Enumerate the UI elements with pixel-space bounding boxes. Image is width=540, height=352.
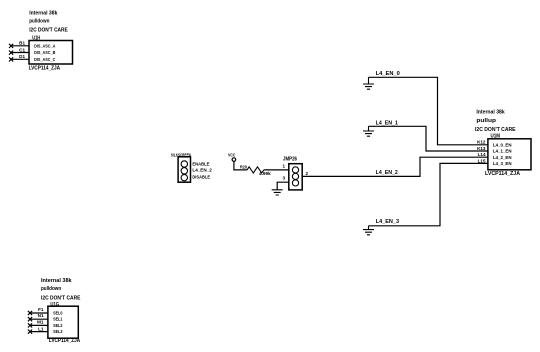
wire resistor to JMP26 pin1 [264,169,289,171]
wire pin L1 [30,331,48,333]
resistor R20 zigzag [247,167,264,173]
svg-text:SEL0: SEL0 [53,311,63,316]
ground for L4_EN_0 [363,77,374,89]
svg-text:L4_2_EN: L4_2_EN [493,155,512,160]
svg-text:I2C DON'T CARE: I2C DON'T CARE [41,296,81,302]
svg-text:SEL1: SEL1 [53,317,63,322]
svg-text:Internal 38k: Internal 38k [29,10,58,16]
wire pin C1 [11,52,29,54]
svg-text:I2C DON'T CARE: I2C DON'T CARE [29,28,68,34]
wire L4_EN_0 [369,77,488,145]
wire pin F1 [30,312,48,314]
ground for L4_EN_1 [363,126,374,136]
wire L4_EN_3 [369,163,488,225]
svg-text:LVCP114_ZJA: LVCP114_ZJA [49,338,80,344]
svg-text:pulldown: pulldown [41,286,62,292]
svg-text:U1G: U1G [50,302,59,308]
wire pin B1 [11,45,29,47]
IC U1H body [29,41,73,65]
svg-text:L4_EN_0: L4_EN_0 [376,71,400,77]
no-connect X on L1 [28,330,32,334]
svg-text:pulldown: pulldown [29,18,50,24]
IC U1G body [48,306,78,338]
svg-text:ENABLE: ENABLE [192,162,210,168]
no-connect X on F1 [28,311,32,315]
ground at JMP26 pin3 [272,190,283,195]
no-connect X on D1 [9,57,13,61]
svg-text:L4_EN_1: L4_EN_1 [376,120,398,126]
no-connect X on M1 [28,323,32,327]
svg-text:L4_EN_2: L4_EN_2 [376,170,398,176]
ground for L4_EN_3 [363,226,374,235]
svg-text:DIS_ASC_A: DIS_ASC_A [34,43,56,48]
svg-text:LVCP114_ZJA: LVCP114_ZJA [485,171,520,177]
jumper JMP26 body [289,164,302,190]
svg-text:N1: N1 [38,313,44,318]
svg-text:4.99k: 4.99k [259,171,271,176]
wire pin D1 [11,58,29,60]
svg-text:SEL3: SEL3 [53,329,63,334]
svg-text:K12: K12 [477,140,486,145]
svg-text:L4_3_EN: L4_3_EN [493,161,512,166]
svg-text:D1: D1 [19,54,25,59]
svg-text:DIS_ASC_C: DIS_ASC_C [34,57,56,62]
svg-text:Internal 38k: Internal 38k [41,278,72,284]
svg-text:3: 3 [282,175,285,180]
legend pin circle 1 [181,161,187,167]
svg-text:F1: F1 [38,307,44,312]
svg-text:L15: L15 [478,158,486,163]
no-connect X on C1 [9,51,13,55]
wire JMP26 pin3 to ground [277,182,289,190]
legend pin circle 2 [181,168,187,174]
no-connect X on B1 [9,44,13,48]
wire VCC to resistor [234,161,247,170]
IC U1M body [488,139,531,170]
svg-text:L1: L1 [38,327,44,332]
svg-text:L4_EN_3: L4_EN_3 [376,219,400,225]
wire L4_EN_1 [369,126,488,151]
wire JMP26 pin2 to L4_EN_2 net [302,157,488,176]
svg-text:Internal 38k: Internal 38k [476,110,505,116]
svg-text:I2C DON'T CARE: I2C DON'T CARE [475,127,516,133]
power VCC symbol circle [232,158,236,162]
svg-text:1: 1 [282,164,285,169]
jumper pin circle 1 [292,167,298,173]
svg-text:DISABLE: DISABLE [192,175,210,181]
svg-text:L14: L14 [478,152,486,157]
jumper pin circle 3 [292,180,298,186]
svg-text:L4_1_EN: L4_1_EN [493,149,512,154]
legend pin circle 3 [181,174,187,180]
wire pin N1 [30,318,48,320]
svg-text:M1: M1 [37,320,44,325]
svg-text:R20: R20 [240,164,247,169]
svg-text:LVCP114_ZJA: LVCP114_ZJA [29,65,61,71]
svg-text:C1: C1 [19,47,25,52]
jumper pin circle 2 [292,173,298,179]
svg-text:K13: K13 [477,146,486,151]
svg-text:B1: B1 [19,41,25,46]
svg-text:L4_0_EN: L4_0_EN [493,142,512,147]
svg-text:2: 2 [306,171,309,176]
svg-text:pullup: pullup [476,118,496,124]
legend header body [178,157,190,182]
wire pin M1 [30,324,48,326]
no-connect X on N1 [28,317,32,321]
svg-text:DIS_ASC_B: DIS_ASC_B [34,50,56,55]
svg-text:SEL2: SEL2 [53,323,63,328]
svg-text:L4_EN_2: L4_EN_2 [192,168,212,174]
svg-text:JMP26: JMP26 [283,156,297,162]
